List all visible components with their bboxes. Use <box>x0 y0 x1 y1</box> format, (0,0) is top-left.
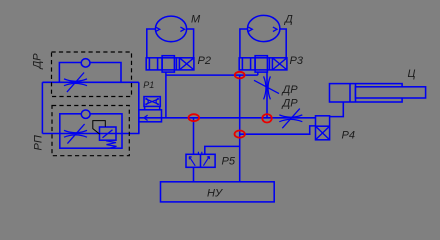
cylinder C body <box>330 84 403 102</box>
motor M circle <box>155 16 186 42</box>
wire from R3 down through throttle to node3 <box>266 72 268 118</box>
wire from R2 down to line A <box>165 72 167 118</box>
motor M bracket <box>147 29 194 58</box>
cylinder piston <box>350 84 356 102</box>
valve R3 X cell <box>272 58 287 70</box>
wire vertical V1 node1 to tank <box>239 75 241 182</box>
wire P5 bypass to V1 <box>205 146 240 154</box>
valve P5 top ticks <box>198 152 201 155</box>
tank NU box <box>161 182 275 202</box>
valve P5 right arrow <box>203 156 209 165</box>
motor M left arrow <box>156 27 160 31</box>
throttle DR vertical (below R3) <box>254 76 279 99</box>
motor D bracket <box>240 29 286 58</box>
DR unit loop <box>59 63 121 83</box>
valve R1 stubs <box>145 106 160 109</box>
svg-text:Р5: Р5 <box>222 156 236 168</box>
RP loop <box>60 114 122 148</box>
DR unit gauge circle <box>81 59 90 67</box>
dashed box DR <box>52 52 132 97</box>
valve P4 body <box>316 116 330 140</box>
wire left vertical (DR exit down to RP line) <box>138 82 140 133</box>
dashed box RP <box>52 106 129 156</box>
RP gauge circle <box>81 110 90 118</box>
RP line <box>42 118 138 134</box>
node 2 <box>189 114 200 121</box>
motor D left arrow <box>248 27 252 31</box>
svg-text:Р3: Р3 <box>290 55 304 67</box>
valve P4 X cell <box>316 126 330 140</box>
svg-text:ДР: ДР <box>32 53 44 71</box>
valve R2 middle box <box>162 56 174 72</box>
wire R2 to node1 <box>166 72 258 75</box>
wire V2 node2 down to P5 <box>193 118 195 155</box>
valve R3 body <box>239 58 287 70</box>
wire cylinder to P4 <box>330 102 344 117</box>
valve R1 lower box <box>139 110 162 122</box>
bypass wire left <box>41 82 43 133</box>
motor D right arrow <box>273 27 277 31</box>
RP relief valve box <box>100 127 117 140</box>
RP throttle <box>64 124 87 144</box>
motor M right arrow <box>180 27 184 31</box>
node 3 <box>262 114 271 122</box>
svg-text:ДР: ДР <box>281 84 299 96</box>
valve R3 middle box <box>255 56 267 72</box>
arrow on line A in box <box>144 115 148 120</box>
wire line A (main bus) <box>139 117 316 119</box>
valve R1 X box <box>144 97 160 107</box>
cylinder rod <box>356 87 426 98</box>
svg-text:Ц: Ц <box>408 68 416 80</box>
valve P5 body <box>186 154 215 167</box>
valve R2 body <box>146 58 194 70</box>
valve R2 X cell <box>179 58 194 70</box>
node 1 <box>235 72 245 79</box>
wire P5 to tank <box>193 167 195 182</box>
svg-text:Д: Д <box>283 14 293 26</box>
svg-text:М: М <box>191 14 201 26</box>
svg-text:РП: РП <box>33 135 45 150</box>
svg-text:НУ: НУ <box>207 187 223 199</box>
RP relief valve spring <box>106 141 117 149</box>
DR unit line <box>42 81 138 83</box>
valve P5 left arrow <box>189 157 195 166</box>
svg-text:Р4: Р4 <box>342 130 355 142</box>
svg-text:ДР: ДР <box>281 98 299 110</box>
RP pilot line <box>93 121 106 135</box>
DR unit throttle <box>64 73 87 93</box>
wire line B node4 to P4 <box>240 126 316 134</box>
svg-text:Р2: Р2 <box>198 55 211 67</box>
throttle DR horizontal (left of P4) <box>279 109 302 129</box>
motor D circle <box>248 15 280 41</box>
svg-text:Р1: Р1 <box>143 80 154 90</box>
node 4 <box>235 131 245 138</box>
